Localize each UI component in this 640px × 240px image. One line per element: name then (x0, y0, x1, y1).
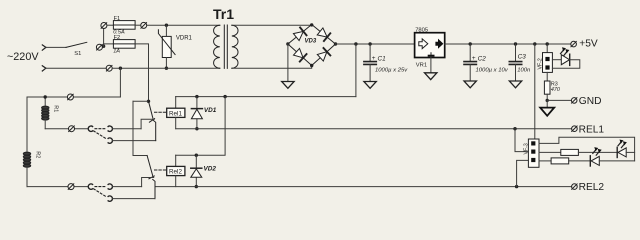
wire socket B upper to NC1 (112, 140, 155, 142)
junction C2 tap (469, 42, 472, 45)
coil load R1 (42, 97, 59, 129)
node pin circle g (68, 184, 74, 190)
junction C1 tap (368, 42, 371, 45)
wire socket A upper to pad leg (112, 128, 141, 130)
ground bridge (282, 82, 294, 89)
connector socket upper B (108, 138, 112, 143)
wire secondary bottom to bridge (232, 66, 312, 69)
connector socket upper A (108, 126, 112, 131)
fuse F2 (113, 35, 135, 55)
junction VF-3 supply tap (533, 42, 536, 45)
diode VD2 (191, 155, 217, 186)
diode VD3 bottom-right (317, 48, 330, 61)
diode VD3 left-top (293, 28, 306, 41)
wire F2 lead from junction (104, 44, 114, 46)
junction relay supply tap (354, 42, 357, 45)
transformer Tr1 (213, 6, 238, 68)
junction VDR1 bottom (165, 67, 168, 70)
LED REL2 arrows (593, 147, 602, 155)
svg-text:+: + (372, 55, 376, 62)
junction REL1 link (513, 127, 516, 130)
wire VF-3 pin3 to resistor (539, 160, 551, 162)
node pin circle f (69, 126, 75, 132)
wire VF-2 supply stem (546, 44, 548, 53)
node REL1 terminal (572, 124, 605, 135)
connector plug upper (88, 126, 92, 131)
connector socket lower A (108, 184, 112, 189)
wire REL1 link to VF-3 pin2 (515, 129, 528, 152)
junction F1/F2/S1 (102, 45, 105, 48)
contact 1 NC stub (153, 120, 155, 140)
svg-text:R2: R2 (35, 151, 41, 158)
LED REL1 arrows (618, 140, 627, 148)
wire to GND terminal (547, 99, 571, 101)
ground regulator VR1 (425, 73, 437, 80)
node pin circle c (line A) (96, 44, 102, 50)
junction bridge top (310, 23, 313, 26)
svg-text:C2: C2 (478, 55, 487, 62)
svg-text:100n: 100n (517, 68, 531, 74)
wire into fuse F1 (107, 24, 113, 26)
contact 1 pad (141, 119, 154, 129)
wire LED loop back to VF-2 pin2 (552, 60, 579, 68)
ground C3 (509, 81, 521, 88)
svg-text:+: + (472, 55, 476, 62)
wire dashed plug to socket A lower (95, 186, 106, 188)
junction VDR1 top (165, 24, 168, 27)
wire top rail to transformer primary (147, 24, 220, 26)
relay contact 2 (147, 156, 154, 179)
svg-text:C1: C1 (378, 55, 387, 62)
wire line B (46, 67, 106, 69)
contact 2 pad (142, 178, 154, 187)
LED power indicator (561, 54, 569, 65)
svg-text:VR1: VR1 (416, 62, 427, 68)
wire relay supply horizontal (176, 96, 356, 98)
node pin circle a (F1 input) (101, 23, 107, 29)
svg-text:~220V: ~220V (7, 51, 39, 63)
junction relay2 branch (223, 95, 226, 98)
ground C2 (464, 81, 476, 88)
node +5V terminal (571, 39, 598, 50)
junction VD2 bottom (195, 185, 198, 188)
wire ground stem under R3 (546, 100, 548, 107)
connector socket lower B (108, 196, 112, 201)
node pin circle d (line B) (106, 65, 112, 71)
junction line B tap (119, 67, 122, 70)
voltage regulator U VR1 7805 (415, 28, 445, 69)
svg-text:7805: 7805 (415, 28, 428, 34)
svg-text:VF-3: VF-3 (523, 143, 529, 154)
wire regulator ground stem (430, 58, 432, 73)
resistor R3 (544, 81, 560, 94)
junction VD1 top (195, 95, 198, 98)
LED indicator REL2 (590, 156, 634, 166)
svg-text:VD2: VD2 (204, 165, 217, 172)
wire resistor to LED2 (569, 160, 590, 162)
wire VF-3 pin1 loop top (539, 137, 635, 161)
LED indicator REL1 (617, 147, 634, 157)
svg-text:470: 470 (551, 87, 560, 93)
wire VF-3 pin2 to resistor (539, 151, 561, 153)
svg-text:1A: 1A (113, 49, 120, 55)
resistor REL1 LED series (561, 149, 579, 155)
svg-text:+5V: +5V (579, 39, 598, 50)
coil load R2 (23, 97, 40, 187)
wire bridge left to ground (287, 44, 289, 82)
wire relay2 branch drop (176, 97, 225, 156)
svg-text:Rel2: Rel2 (169, 169, 182, 176)
svg-text:F2: F2 (114, 35, 121, 41)
wire REL2 link to VF-3 pin3 (517, 160, 529, 186)
wire secondary top to bridge (232, 24, 312, 26)
wire line A to switch (46, 46, 66, 48)
node ~220V label (7, 51, 39, 63)
wire main +V rail (336, 43, 415, 45)
wire VF-2 pin1 to LED (552, 59, 561, 61)
relay coil Rel2 (167, 155, 185, 186)
svg-text:F1: F1 (114, 16, 121, 22)
wire dashed plug to socket B upper (94, 131, 107, 139)
ground C1 (364, 82, 376, 89)
wire R1 bottom (45, 128, 88, 130)
wire VF-2 pin2 to R3 (546, 72, 548, 81)
junction GND tee (546, 99, 549, 102)
wire coil top rail (27, 96, 120, 98)
wire junction up to pin circle a (103, 29, 105, 46)
node GND terminal (571, 96, 601, 107)
wire dashed plug to socket B lower (94, 189, 107, 197)
wire F2 output to contact 1 (135, 44, 148, 101)
wire line B continues to primary bottom (112, 67, 219, 69)
bridge rectifier VD3 (288, 25, 336, 66)
svg-text:1000µ x 25v: 1000µ x 25v (375, 67, 408, 73)
terminal mains line A input (42, 45, 46, 50)
wire resistor to LED1 (578, 151, 617, 153)
junction bridge bottom (310, 64, 313, 67)
resistor REL2 LED series (551, 158, 569, 164)
wire coil R2 bottom (27, 186, 88, 188)
junction REL2 link (515, 185, 518, 188)
connector U VF-2 (538, 53, 553, 73)
capacitor C1 (364, 44, 408, 82)
wire dashed contact1 to Rel1 (155, 111, 167, 113)
svg-text:C3: C3 (518, 54, 527, 61)
junction C3 tap (514, 42, 517, 45)
junction bridge left (286, 42, 289, 45)
contact 2 NC stub (153, 179, 155, 198)
junction VD1 bottom (195, 127, 198, 130)
svg-text:R1: R1 (53, 105, 59, 112)
svg-text:VDR1: VDR1 (176, 36, 193, 42)
junction VD2 top (195, 154, 198, 157)
wire R3 to ground node (546, 94, 548, 100)
capacitor C3 (509, 44, 531, 81)
wire contact commons link (133, 101, 147, 155)
terminal mains line B input (42, 66, 46, 71)
junction bridge right (334, 42, 337, 45)
svg-text:S1: S1 (74, 51, 81, 57)
wire REL1 line (176, 128, 571, 130)
wire circle c to junction (102, 45, 103, 48)
varistor VDR1 (158, 25, 192, 68)
diode VD3 left-bottom (294, 48, 307, 61)
node pin circle b (F1 output) (141, 22, 147, 28)
wire dashed plug to socket A upper (95, 128, 106, 130)
LED power arrows (561, 47, 570, 55)
svg-text:Tr1: Tr1 (213, 6, 234, 22)
svg-text:VD1: VD1 (204, 107, 217, 114)
svg-text:REL2: REL2 (579, 182, 605, 193)
diode VD1 (191, 97, 216, 129)
connector plug lower (88, 184, 92, 189)
svg-text:VD3: VD3 (305, 39, 317, 45)
junction VF-2 supply tap (546, 42, 549, 45)
svg-text:VF-2: VF-2 (538, 58, 544, 69)
wire +5V rail after regulator (445, 43, 571, 45)
wire dashed contact2 to Rel2 (155, 169, 167, 171)
ground main (540, 108, 554, 116)
wire VF-3 supply drop (534, 44, 536, 139)
svg-text:REL1: REL1 (579, 124, 605, 135)
junction coil R1 top (44, 95, 47, 98)
svg-text:GND: GND (579, 96, 602, 107)
wire REL2 line (155, 186, 571, 188)
wire line B drop to coil rail (119, 68, 121, 97)
wire F1 box to circle b (135, 24, 141, 26)
svg-text:Rel1: Rel1 (169, 110, 182, 117)
diode VD3 top-right (317, 28, 330, 41)
connector U VF-3 (523, 139, 539, 167)
wire socket A lower to pad leg (112, 186, 141, 188)
wire socket B lower to NC2 (112, 198, 155, 200)
wire relay supply drop (355, 44, 357, 97)
node pin circle e (67, 94, 73, 100)
relay coil Rel1 (167, 97, 185, 129)
capacitor C2 (464, 44, 509, 81)
fuse F1 (113, 16, 135, 36)
node REL2 terminal (572, 182, 605, 193)
switch S1 (66, 42, 87, 57)
svg-text:1000µ x 10v: 1000µ x 10v (476, 67, 509, 73)
relay contact 1 (133, 100, 155, 123)
